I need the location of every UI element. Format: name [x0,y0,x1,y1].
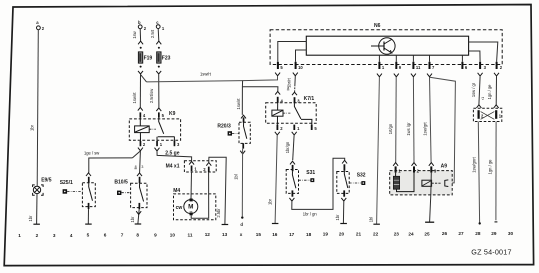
A9 solenoid coil [393,173,414,192]
svg-text:4: 4 [70,233,73,238]
wire N6 pin2 to connector block, label 1gn/ge [487,76,499,108]
svg-text:13: 13 [222,232,228,237]
svg-text:5: 5 [87,233,90,238]
svg-text:B10/5: B10/5 [114,179,128,185]
wire F19 to K9 pin 4, label 1sw/rt [132,74,141,107]
ground bar terminal 22 [373,223,380,225]
svg-text:d: d [240,222,243,227]
wire M4x1 pin2 to terminal 13, label 2.5br [209,157,226,224]
wire S25/1 to terminal 5 [87,209,89,224]
bus wire 1sw/rt (horizontal to N6 pin 5) [147,71,278,82]
svg-text:1br/gn: 1br/gn [285,141,290,153]
svg-text:8: 8 [135,165,137,169]
wire below F19 with connector dot and chevron [138,66,143,74]
wire c to fuse F23, label 2.5rt [150,29,162,49]
wire R20/3 to connector d, label 1bl [233,149,245,217]
pressure switch S31 [286,161,315,197]
svg-text:1ws /gr: 1ws /gr [406,122,411,136]
wire N6 pin9 to A9 pin1, label 1rt/gn [388,77,396,162]
svg-text:F19: F19 [144,55,153,61]
unit A9 (compressor clutch unit) [390,163,453,195]
svg-text:28: 28 [475,231,481,236]
svg-text:K9: K9 [169,111,176,117]
svg-text:15: 15 [256,232,262,237]
fuse F19 [138,52,152,63]
pressure switch S32 [337,160,366,196]
wire K7/1 pin1 to S31, label 1br/gn [285,132,297,160]
wire N6 pin11 to A9 pin2, label 1ws/gr [406,77,414,162]
wire bus to R20/3 branch and K7/1 pin4 feed [236,81,278,115]
svg-text:GZ 54-0017: GZ 54-0017 [471,248,511,257]
N6 pin 5 [275,42,306,76]
svg-text:22: 22 [373,232,379,237]
svg-text:10: 10 [298,65,303,70]
svg-text:1sw/rt: 1sw/rt [132,92,137,104]
wire B10/5 to terminal 8, label 1br [130,209,141,224]
wire junction to B10/5 (vertical) with marks [134,151,143,173]
svg-text:11: 11 [188,232,193,237]
switch S25/1 [60,173,96,209]
relay K7/1 [266,91,318,130]
wire below F23 with connector dot and chevron [156,66,161,74]
svg-text:10: 10 [170,232,176,237]
relay K9 [129,107,180,147]
svg-text:1gn / ge: 1gn / ge [488,159,493,175]
svg-text:2.5rt: 2.5rt [150,29,155,38]
wire N6 pin7 to A9 pin3, label 1sw/grt [422,77,431,162]
control unit N6 [270,23,502,64]
svg-text:18: 18 [306,232,312,237]
svg-text:1sw / gr: 1sw / gr [471,82,476,97]
lamp E9/5 [33,177,52,195]
svg-text:1: 1 [18,233,21,238]
wire branch F19 to bus (diagonal) [141,74,147,82]
svg-text:R20/3: R20/3 [217,124,231,130]
wire A9 pin3 to terminal 25 [430,173,432,222]
N6 pin 2 [469,42,503,76]
svg-text:1br: 1br [30,124,35,131]
svg-text:S31: S31 [306,170,315,176]
N6 pin 3 [469,51,487,76]
svg-text:25: 25 [424,231,430,236]
svg-text:21: 21 [356,232,362,237]
switch B10/5 [114,173,147,209]
svg-text:1bl: 1bl [369,217,374,223]
svg-text:11: 11 [416,65,421,70]
svg-text:S25/1: S25/1 [60,180,73,186]
fuse F23 [157,52,171,63]
svg-text:cw: cw [176,205,183,211]
connector M4x1 [166,161,217,172]
ground bar terminal 5 [85,223,92,225]
A9 thermal element [422,180,432,186]
svg-text:8: 8 [136,233,139,238]
svg-text:27: 27 [458,231,464,236]
svg-text:2: 2 [36,233,39,238]
svg-text:x: x [240,232,243,237]
wire a to E9/5, label 1br [30,30,39,186]
svg-text:24: 24 [408,231,414,236]
ground bar terminal 16 [272,223,279,225]
ground bar terminal 8 [135,223,142,225]
svg-text:2.5 ge: 2.5 ge [165,150,179,156]
svg-text:29: 29 [491,231,497,236]
svg-text:1br: 1br [130,216,135,223]
ground bar terminal 13 [222,224,229,226]
transistor symbol in N6 [371,38,395,54]
svg-text:a: a [287,86,289,90]
ground bar terminal 20 [340,223,347,225]
wire F23 to K9 pin 5, label 2.5rt/sw [149,74,159,107]
connector block pins 2/1 [473,108,501,121]
motor M4 [173,171,216,220]
svg-text:30: 30 [508,231,514,236]
svg-text:17: 17 [289,232,295,237]
svg-text:M4: M4 [173,188,180,194]
N6 pin 11 [411,55,421,77]
connector b (terminal b, pin 2) [138,20,147,31]
svg-text:F23: F23 [162,55,171,61]
wire K9 pin1 to M4x1 pin1, label 2.5 ge [155,148,192,161]
N6 pin 1 [377,55,385,77]
svg-text:1br / gn: 1br / gn [303,211,318,216]
wire N6 pin10 to K7/1 pin3, label 1br/rt [286,76,295,92]
svg-text:1sw/grt: 1sw/grt [422,122,427,136]
wire N6 pin7 diagonal bypass to A9 side contact [430,77,456,183]
connector a (terminal a, pin 2) [36,20,45,31]
wire N6 pin3 to connector block, label 1sw/gr [471,76,485,108]
svg-text:1br: 1br [335,214,340,221]
svg-text:16: 16 [272,232,278,237]
svg-text:1br: 1br [267,198,272,205]
wire S32 to terminal 20, label 1br [335,198,346,223]
wire b to fuse F19, label 1sw [132,29,143,49]
svg-text:K7/1: K7/1 [304,96,315,102]
wire K7/1 pin2 to terminal 16, label 1br [267,132,279,223]
svg-text:2.5rt/sw: 2.5rt/sw [149,89,154,103]
svg-text:19: 19 [323,232,329,237]
wire E9/5 to terminal 2, label 1br [28,194,37,224]
svg-text:1ge / sw: 1ge / sw [84,151,99,156]
wire connector block to terminal 29, label 1gn/ge [488,122,498,222]
N6 pin 9 [394,55,402,77]
A9 side contact [432,180,449,187]
temperature switch R20/3 [217,115,250,148]
svg-text:1rt/gn: 1rt/gn [388,123,393,134]
connector d (wire end) [240,216,243,227]
svg-text:S32: S32 [357,172,366,178]
svg-text:2.5br: 2.5br [216,208,221,218]
svg-text:7: 7 [121,233,124,238]
svg-text:1sw/gnrt: 1sw/gnrt [471,156,476,172]
wire K9 pin2 junction (chevron, diagonal to 1ge/sw) [132,148,143,158]
svg-text:1bl: 1bl [233,174,238,180]
svg-text:23: 23 [394,231,400,236]
svg-text:1gn / ge: 1gn / ge [487,84,492,100]
svg-text:6: 6 [104,233,107,238]
wire S31 to S32 via 1br/gn run [289,158,344,216]
ground bar terminal 2 [33,223,40,225]
svg-text:A9: A9 [441,164,448,170]
svg-text:r1: r1 [481,97,485,100]
svg-text:1sw/rt: 1sw/rt [200,71,212,76]
svg-text:20: 20 [339,232,345,237]
N6 pin 7 [427,55,435,77]
N6 pin 6 [461,55,468,70]
wire N6 pin1 to terminal 22, label 1bl [369,77,380,224]
svg-text:E9/5: E9/5 [41,177,52,183]
svg-text:b: b [138,20,141,25]
svg-text:3: 3 [53,233,56,238]
N6 pin 10 [293,50,307,76]
svg-text:1sw: 1sw [132,31,137,38]
connector c (terminal c, pin 1) [156,20,165,31]
svg-text:1br: 1br [28,215,33,222]
svg-text:N6: N6 [374,23,381,29]
svg-text:26: 26 [442,231,448,236]
svg-text:1sw/rt: 1sw/rt [236,98,241,110]
svg-text:3: 3 [141,165,143,169]
wire 1ge/sw horizontal to S25/1 [84,151,132,173]
svg-text:12: 12 [205,232,211,237]
terminal number row 1-30 [18,231,513,238]
wire connector block to terminal 28, label 1sw/gnrt [471,122,481,225]
ground bar terminal 25 [425,221,434,223]
svg-text:9: 9 [154,232,157,237]
svg-text:M4 x1: M4 x1 [166,163,180,169]
